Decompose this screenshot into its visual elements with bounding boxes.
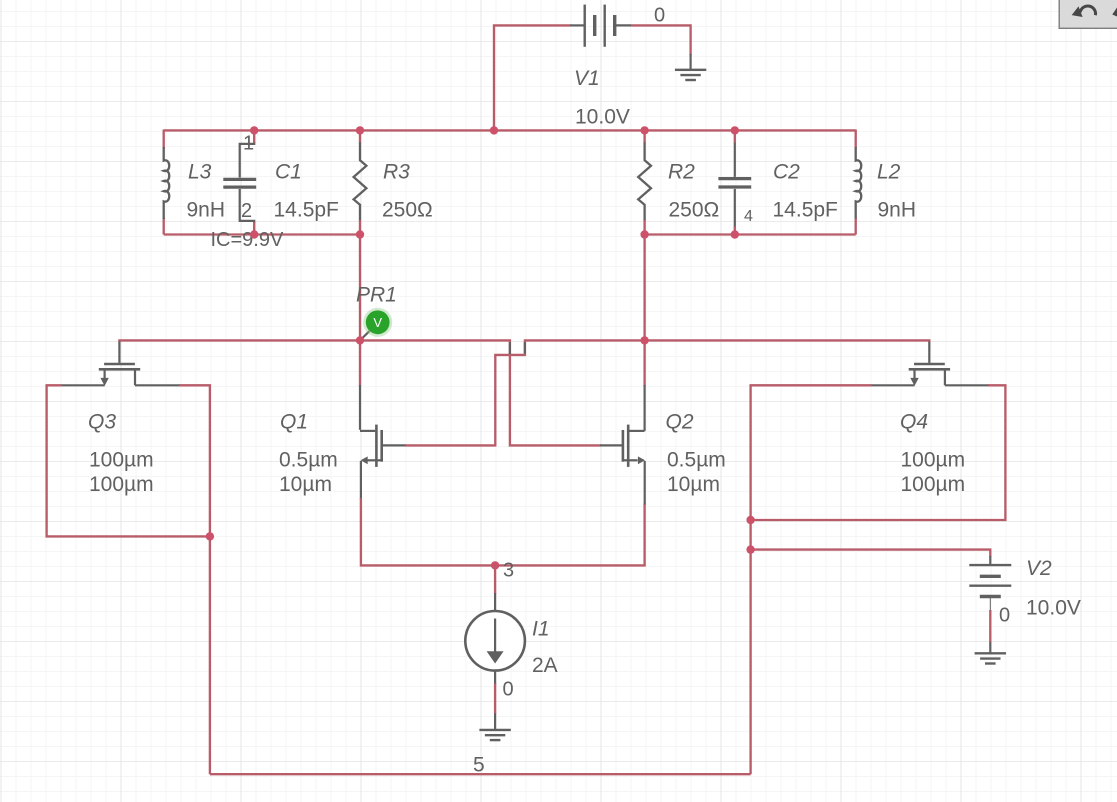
- wire C2 bottom stub: [734, 227, 736, 235]
- svg-text:100µm: 100µm: [901, 473, 966, 496]
- battery V1: [570, 5, 691, 70]
- wire gate row left (Q3 gate to crossover): [119, 340, 600, 445]
- wire gate row right (crossover to Q4 gate): [495, 340, 929, 445]
- node dot tail (node 3): [491, 561, 499, 569]
- svg-text:R2: R2: [668, 160, 695, 183]
- ground (I1): [479, 730, 510, 740]
- node dot rail-R2: [640, 126, 648, 134]
- transistor Q4: [871, 342, 990, 386]
- svg-text:Q3: Q3: [88, 410, 116, 433]
- svg-text:5: 5: [473, 754, 485, 777]
- svg-text:L2: L2: [877, 160, 901, 183]
- svg-text:100µm: 100µm: [89, 473, 154, 496]
- svg-text:10µm: 10µm: [279, 473, 332, 496]
- transistor Q1: [360, 385, 406, 499]
- wire crossover gray stub right: [524, 342, 526, 353]
- ground (V1): [675, 70, 706, 80]
- svg-text:0: 0: [654, 4, 665, 26]
- svg-text:9nH: 9nH: [187, 199, 226, 222]
- svg-text:Q2: Q2: [666, 410, 694, 433]
- svg-text:Q1: Q1: [280, 410, 308, 433]
- svg-text:C2: C2: [773, 160, 800, 183]
- svg-text:V: V: [373, 315, 382, 330]
- svg-text:Q4: Q4: [900, 410, 928, 433]
- wire I1 to ground: [494, 684, 496, 714]
- svg-text:9nH: 9nH: [878, 198, 917, 221]
- transistor Q3: [61, 342, 180, 386]
- svg-text:4: 4: [744, 208, 753, 225]
- wire Q3 source loop: [47, 385, 210, 536]
- wire R2 top stub: [643, 130, 645, 143]
- node dot R2 bottom: [640, 230, 648, 238]
- ground (V2): [975, 653, 1006, 663]
- undo button: [1059, 0, 1117, 28]
- svg-text:L3: L3: [188, 160, 212, 183]
- node dot Q3 bottom: [206, 532, 214, 540]
- wire node3 to I1: [494, 565, 496, 594]
- node dot net5-V2: [746, 545, 754, 553]
- resistor R2: [638, 142, 651, 222]
- wire Q1 gate red: [359, 340, 361, 386]
- node dot rail-V1: [490, 126, 498, 134]
- wire V1 top loop: [494, 25, 571, 129]
- node dot gate row right / Q2 gate: [640, 336, 648, 344]
- node dot Q4 bottom: [746, 516, 754, 524]
- transistor Q2: [600, 385, 645, 505]
- arrow Q2 source: [638, 456, 645, 464]
- resistor R3: [354, 142, 367, 222]
- node dot C1 bottom: [250, 230, 258, 238]
- redo button sliver: [1112, 8, 1117, 17]
- arrow Q4: [910, 378, 918, 386]
- wire R3 bottom / left column down to gate row: [359, 220, 361, 342]
- wire C2 top stub: [734, 130, 736, 143]
- svg-text:100µm: 100µm: [901, 448, 966, 471]
- svg-text:10.0V: 10.0V: [575, 105, 630, 128]
- svg-text:10µm: 10µm: [667, 473, 720, 496]
- current source I1: [465, 593, 525, 730]
- wire crossover gray stub left: [509, 342, 511, 354]
- wire C1 bottom stub: [253, 222, 255, 235]
- svg-text:250Ω: 250Ω: [382, 199, 433, 222]
- node dot R3 bottom: [356, 230, 364, 238]
- node dot rail-C1: [250, 126, 258, 134]
- svg-text:0.5µm: 0.5µm: [279, 448, 338, 471]
- svg-text:0.5µm: 0.5µm: [667, 448, 726, 471]
- node dot rail-R3: [356, 126, 364, 134]
- svg-text:2: 2: [241, 200, 252, 222]
- capacitor C2: [718, 142, 751, 228]
- wire Q4 drain loop: [751, 385, 1006, 520]
- node dot PR1 / gate row left: [356, 336, 364, 344]
- wire right tank right edge: [855, 130, 857, 149]
- svg-text:0: 0: [503, 678, 514, 700]
- svg-text:100µm: 100µm: [89, 448, 154, 471]
- wire right tank bottom rail: [645, 233, 856, 235]
- svg-text:I1: I1: [532, 618, 550, 641]
- wire R2 bottom / right column down to gate row: [643, 220, 645, 342]
- wire C1 top stub: [253, 130, 255, 143]
- probe PR1: [361, 308, 393, 340]
- wire bottom rail net 5: [210, 773, 751, 775]
- svg-text:IC=9.9V: IC=9.9V: [211, 229, 284, 251]
- svg-text:10.0V: 10.0V: [1026, 596, 1081, 619]
- arrow Q1 source: [361, 456, 368, 464]
- wire top rail: [164, 129, 856, 131]
- wire net5 to V2: [751, 550, 991, 557]
- wire Q2 gate red: [643, 340, 645, 386]
- wire Q1 drain red: [405, 444, 497, 446]
- svg-text:R3: R3: [383, 160, 410, 183]
- wire Q4 source lead to net5 column: [751, 385, 872, 774]
- svg-text:2A: 2A: [532, 654, 558, 677]
- wire V1 right to ground: [630, 25, 690, 55]
- capacitor C1: [223, 142, 256, 223]
- svg-text:C1: C1: [275, 160, 302, 183]
- inductor L2: [856, 147, 862, 219]
- wire left tank bottom rail: [164, 233, 360, 235]
- svg-text:1: 1: [243, 132, 254, 154]
- wire V2 to ground: [989, 610, 991, 642]
- wire Q1 source down to tail rail: [361, 498, 645, 565]
- wire left tank left edge: [163, 130, 165, 149]
- node dot C2 bottom: [731, 230, 739, 238]
- wire Q3 drain to net5 column: [179, 385, 210, 774]
- arrow I1: [487, 651, 504, 663]
- svg-text:14.5pF: 14.5pF: [773, 199, 838, 222]
- node dot rail-C2: [731, 126, 739, 134]
- arrow Q3: [100, 378, 108, 386]
- svg-text:14.5pF: 14.5pF: [274, 199, 339, 222]
- wire R3 top stub: [359, 130, 361, 143]
- inductor L3: [164, 147, 170, 219]
- svg-text:V2: V2: [1026, 557, 1052, 580]
- svg-text:250Ω: 250Ω: [669, 199, 720, 222]
- svg-text:V1: V1: [574, 67, 600, 90]
- svg-text:PR1: PR1: [356, 283, 397, 306]
- battery V2: [969, 556, 1011, 653]
- svg-text:3: 3: [503, 559, 514, 581]
- svg-text:0: 0: [999, 604, 1010, 626]
